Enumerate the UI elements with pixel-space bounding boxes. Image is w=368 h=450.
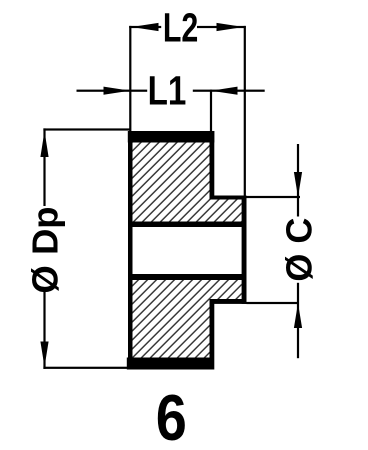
bore bottom wall (128, 274, 247, 280)
svg-text:L1: L1 (148, 67, 187, 113)
Dp bottom arrowhead (40, 342, 48, 367)
C top arrowhead (294, 172, 302, 197)
bore top wall (128, 222, 247, 228)
L1 dimension line left segment (77, 90, 148, 92)
C bottom extension line (247, 302, 300, 304)
L2 right extension line (244, 26, 246, 197)
Dp dimension line upper segment (43, 128, 45, 206)
Dp top extension line (43, 128, 131, 130)
flange step face upper (210, 196, 247, 200)
C dimension line top tail (297, 144, 299, 217)
Dp bottom extension line (43, 367, 130, 369)
L2 left extension line (129, 26, 131, 133)
L2 left arrowhead (132, 23, 159, 31)
L2 right arrowhead (217, 23, 244, 31)
hub right face lower (210, 299, 215, 370)
hub right face upper (210, 131, 215, 200)
L2 dimension line right segment (197, 26, 246, 28)
top face (teeth) thick bar (128, 131, 215, 143)
C dimension line bottom tail (297, 283, 299, 358)
C top extension line (247, 196, 301, 198)
hatch upper block (133, 143, 242, 222)
L1 right extension line (210, 90, 212, 131)
svg-text:Ø C: Ø C (279, 218, 320, 282)
hatch lower block (133, 280, 242, 358)
C bottom arrowhead (294, 303, 302, 328)
Dp top arrowhead (40, 131, 48, 157)
L2 dimension line left segment (129, 26, 161, 28)
flange step face lower (210, 299, 247, 304)
L1 right arrowhead (211, 87, 238, 95)
L1 left arrowhead (104, 87, 131, 95)
flange right face (242, 196, 247, 304)
Dp dimension line lower segment (43, 292, 45, 369)
svg-text:L2: L2 (163, 5, 198, 50)
bottom face (teeth) thick bar (127, 358, 214, 370)
svg-text:6: 6 (156, 381, 187, 450)
L1 dimension line right segment (193, 90, 265, 92)
svg-text:Ø Dp: Ø Dp (25, 206, 66, 293)
left face (128, 131, 133, 370)
